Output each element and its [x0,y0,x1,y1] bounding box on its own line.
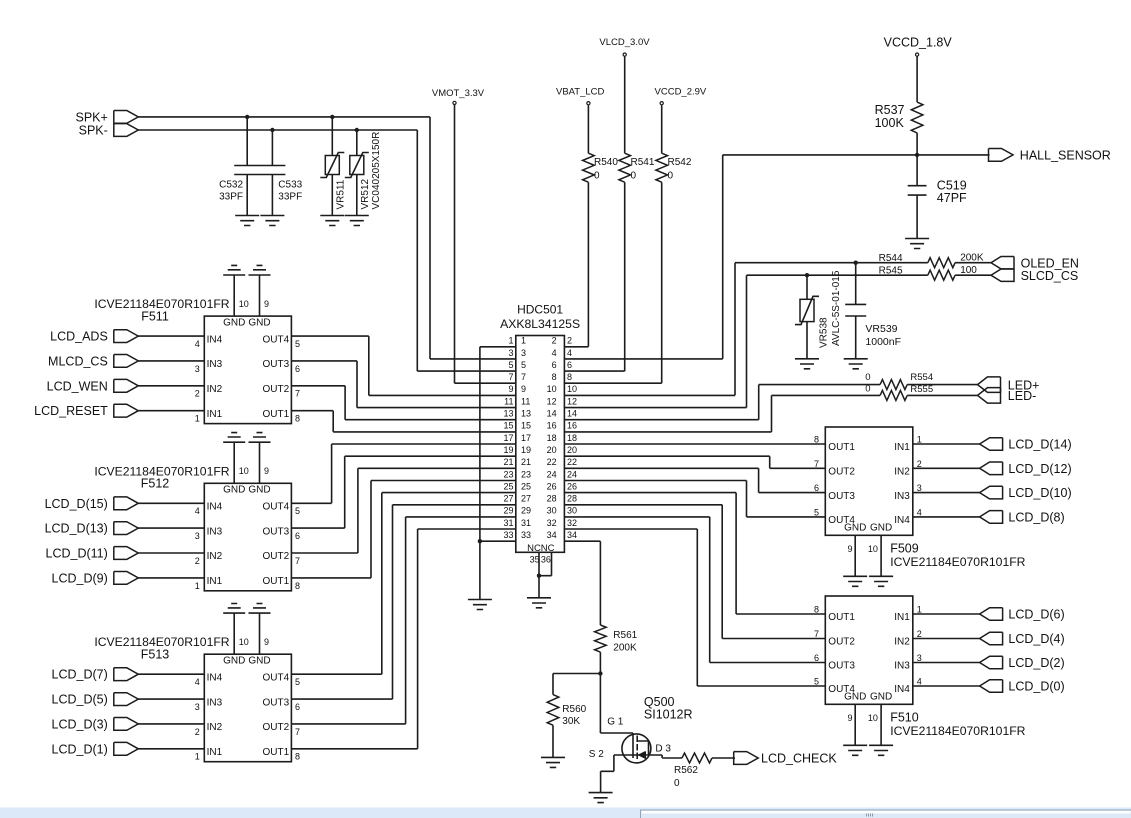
svg-text:OUT3: OUT3 [263,359,290,370]
svg-text:9: 9 [847,713,852,723]
svg-text:0: 0 [594,171,600,182]
svg-text:OUT2: OUT2 [828,467,855,478]
svg-text:NC: NC [527,543,541,554]
svg-text:VR539: VR539 [865,323,897,335]
svg-text:34: 34 [567,530,577,540]
svg-text:ICVE21184E070R101FR: ICVE21184E070R101FR [890,724,1025,738]
svg-text:VCCD_1.8V: VCCD_1.8V [884,35,953,49]
svg-text:NC: NC [541,543,555,554]
svg-text:IN2: IN2 [207,551,223,562]
svg-text:9: 9 [264,466,269,476]
svg-text:C532: C532 [219,180,243,191]
svg-text:14: 14 [547,409,557,419]
svg-text:30K: 30K [562,716,580,727]
svg-text:10: 10 [239,637,249,647]
svg-text:2: 2 [552,336,557,346]
svg-text:28: 28 [547,494,557,504]
svg-text:IN1: IN1 [894,612,910,623]
svg-text:LCD_D(14): LCD_D(14) [1008,438,1071,452]
svg-text:10: 10 [547,384,557,394]
svg-text:30: 30 [567,506,577,516]
svg-text:0: 0 [668,171,674,182]
svg-text:OUT1: OUT1 [263,747,290,758]
svg-text:R544: R544 [879,253,903,264]
svg-text:LCD_WEN: LCD_WEN [47,379,108,393]
svg-text:IN2: IN2 [894,637,910,648]
svg-text:IN4: IN4 [894,515,910,526]
svg-text:23: 23 [503,469,513,479]
svg-text:IN3: IN3 [894,661,910,672]
svg-text:20: 20 [567,445,577,455]
svg-text:IN2: IN2 [207,384,223,395]
svg-text:19: 19 [503,445,513,455]
svg-text:MLCD_CS: MLCD_CS [48,354,108,368]
svg-text:OUT4: OUT4 [828,515,855,526]
svg-text:6: 6 [814,483,819,493]
svg-text:8: 8 [295,752,300,762]
svg-text:IN3: IN3 [894,491,910,502]
svg-text:6: 6 [567,360,572,370]
svg-text:21: 21 [521,457,531,467]
svg-text:7: 7 [295,556,300,566]
svg-text:30: 30 [547,506,557,516]
svg-text:1000nF: 1000nF [865,336,901,348]
svg-text:4: 4 [195,339,200,349]
svg-text:R560: R560 [562,704,586,715]
svg-text:7: 7 [295,389,300,399]
svg-text:7: 7 [814,459,819,469]
svg-text:5: 5 [814,677,819,687]
svg-text:GND: GND [223,317,245,328]
svg-text:LCD_D(3): LCD_D(3) [52,717,108,731]
svg-text:6: 6 [295,364,300,374]
svg-text:4: 4 [917,677,922,687]
svg-text:31: 31 [521,518,531,528]
svg-text:OUT2: OUT2 [263,722,290,733]
svg-text:D 3: D 3 [655,743,671,754]
svg-text:R540: R540 [594,157,618,168]
svg-text:R561: R561 [613,630,637,641]
svg-text:10: 10 [868,544,878,554]
svg-text:5: 5 [814,507,819,517]
svg-text:R542: R542 [668,157,692,168]
svg-text:29: 29 [521,506,531,516]
svg-text:LCD_D(6): LCD_D(6) [1008,608,1064,622]
svg-text:27: 27 [521,494,531,504]
svg-text:R545: R545 [879,266,903,277]
svg-text:22: 22 [567,457,577,467]
svg-text:2: 2 [917,629,922,639]
svg-text:1: 1 [917,435,922,445]
svg-text:4: 4 [917,507,922,517]
svg-text:R562: R562 [674,765,698,776]
svg-text:IN1: IN1 [894,442,910,453]
svg-text:OUT1: OUT1 [828,442,855,453]
svg-text:1: 1 [195,414,200,424]
svg-text:3: 3 [508,348,513,358]
svg-text:OUT4: OUT4 [263,502,290,513]
svg-text:3: 3 [917,483,922,493]
svg-text:HDC501: HDC501 [517,303,563,317]
svg-text:28: 28 [567,494,577,504]
svg-text:1: 1 [508,336,513,346]
svg-text:9: 9 [508,384,513,394]
svg-text:13: 13 [503,409,513,419]
svg-text:VC040205X150R: VC040205X150R [371,132,382,210]
svg-text:R541: R541 [631,157,655,168]
svg-text:35: 35 [530,555,540,565]
svg-text:2: 2 [195,389,200,399]
svg-text:200K: 200K [960,253,984,264]
svg-text:6: 6 [295,531,300,541]
svg-text:1: 1 [917,605,922,615]
svg-text:25: 25 [503,481,513,491]
svg-text:22: 22 [547,457,557,467]
svg-text:LCD_CHECK: LCD_CHECK [761,752,837,766]
svg-text:23: 23 [521,469,531,479]
svg-text:GND: GND [223,485,245,496]
svg-text:IN4: IN4 [207,672,223,683]
svg-text:6: 6 [814,653,819,663]
svg-text:GND: GND [248,485,270,496]
svg-text:F510: F510 [890,710,919,724]
svg-text:GND: GND [223,656,245,667]
svg-text:12: 12 [547,396,557,406]
svg-text:8: 8 [814,605,819,615]
svg-text:2: 2 [195,727,200,737]
svg-text:8: 8 [295,581,300,591]
svg-text:7: 7 [295,727,300,737]
svg-text:8: 8 [814,435,819,445]
svg-text:S 2: S 2 [589,749,604,760]
svg-text:26: 26 [547,481,557,491]
svg-text:SI1012R: SI1012R [644,707,693,721]
svg-text:15: 15 [521,421,531,431]
svg-text:VCCD_2.9V: VCCD_2.9V [655,86,707,97]
svg-text:VR538: VR538 [819,317,830,348]
svg-text:IN2: IN2 [894,467,910,478]
svg-text:19: 19 [521,445,531,455]
svg-text:11: 11 [504,396,513,406]
svg-text:32: 32 [567,518,577,528]
svg-text:10: 10 [239,299,249,309]
svg-text:36: 36 [541,555,551,565]
svg-text:8: 8 [552,372,557,382]
svg-text:ICVE21184E070R101FR: ICVE21184E070R101FR [890,555,1025,569]
svg-text:IN4: IN4 [207,334,223,345]
svg-text:R537: R537 [875,103,905,117]
svg-text:IN4: IN4 [894,684,910,695]
svg-text:AVLC-5S-01-015: AVLC-5S-01-015 [831,270,842,346]
svg-text:12: 12 [567,396,577,406]
svg-text:8: 8 [295,414,300,424]
svg-text:10: 10 [868,713,878,723]
svg-text:9: 9 [521,384,526,394]
svg-text:5: 5 [295,506,300,516]
svg-text:3: 3 [195,702,200,712]
svg-text:SPK+: SPK+ [75,110,107,124]
svg-text:OUT4: OUT4 [263,334,290,345]
svg-text:SLCD_CS: SLCD_CS [1021,269,1079,283]
svg-text:OUT3: OUT3 [263,526,290,537]
svg-text:3: 3 [917,653,922,663]
svg-text:34: 34 [547,530,557,540]
svg-text:3: 3 [521,348,526,358]
svg-text:IN4: IN4 [207,502,223,513]
svg-text:24: 24 [547,469,557,479]
svg-text:VR511: VR511 [336,179,347,209]
svg-text:5: 5 [508,360,513,370]
svg-text:VLCD_3.0V: VLCD_3.0V [599,37,650,48]
svg-text:F511: F511 [141,309,169,323]
svg-text:10: 10 [239,466,249,476]
svg-text:LED-: LED- [1008,389,1036,403]
svg-text:1: 1 [195,752,200,762]
svg-text:9: 9 [264,637,269,647]
svg-text:9: 9 [847,544,852,554]
svg-text:18: 18 [547,433,557,443]
svg-text:33PF: 33PF [278,192,302,203]
svg-text:VBAT_LCD: VBAT_LCD [556,86,605,97]
svg-text:0: 0 [865,383,870,394]
svg-text:31: 31 [503,518,513,528]
svg-text:HALL_SENSOR: HALL_SENSOR [1020,149,1111,163]
svg-text:LCD_D(13): LCD_D(13) [45,522,108,536]
svg-text:4: 4 [567,348,572,358]
svg-text:OUT2: OUT2 [263,551,290,562]
svg-text:10: 10 [567,384,577,394]
svg-text:32: 32 [547,518,557,528]
svg-text:GND: GND [248,656,270,667]
svg-text:OUT1: OUT1 [263,576,290,587]
svg-text:1: 1 [521,336,526,346]
svg-text:8: 8 [567,372,572,382]
svg-text:IN1: IN1 [207,409,223,420]
svg-text:AXK8L34125S: AXK8L34125S [500,317,580,331]
svg-text:27: 27 [503,494,513,504]
svg-text:2: 2 [917,459,922,469]
svg-text:R554: R554 [910,372,933,383]
svg-text:3: 3 [195,531,200,541]
svg-text:4: 4 [195,677,200,687]
svg-text:4: 4 [195,506,200,516]
svg-text:G 1: G 1 [607,717,624,728]
svg-text:SPK-: SPK- [79,124,108,138]
svg-text:6: 6 [552,360,557,370]
svg-text:14: 14 [567,409,577,419]
svg-text:OUT1: OUT1 [828,612,855,623]
svg-text:100K: 100K [875,116,905,130]
svg-text:17: 17 [521,433,531,443]
svg-text:9: 9 [264,299,269,309]
svg-text:LCD_D(15): LCD_D(15) [45,497,108,511]
svg-text:5: 5 [521,360,526,370]
svg-text:IN1: IN1 [207,576,223,587]
svg-text:OUT3: OUT3 [828,661,855,672]
svg-text:C533: C533 [278,180,302,191]
svg-text:GND: GND [870,522,892,533]
svg-text:7: 7 [508,372,513,382]
svg-text:VMOT_3.3V: VMOT_3.3V [432,88,485,99]
svg-text:LCD_D(8): LCD_D(8) [1008,510,1064,524]
svg-text:OUT4: OUT4 [828,684,855,695]
svg-text:5: 5 [295,339,300,349]
svg-text:7: 7 [814,629,819,639]
svg-text:13: 13 [521,409,531,419]
svg-text:15: 15 [503,421,513,431]
svg-text:LCD_D(0): LCD_D(0) [1008,680,1064,694]
svg-text:IN2: IN2 [207,722,223,733]
svg-text:LCD_D(1): LCD_D(1) [52,742,108,756]
svg-text:47PF: 47PF [937,191,967,205]
svg-text:21: 21 [503,457,513,467]
svg-text:LCD_D(7): LCD_D(7) [52,668,108,682]
svg-text:2: 2 [567,336,572,346]
svg-text:IN3: IN3 [207,697,223,708]
svg-text:18: 18 [567,433,577,443]
svg-text:LCD_D(10): LCD_D(10) [1008,486,1071,500]
svg-text:20: 20 [547,445,557,455]
svg-text:OUT2: OUT2 [828,637,855,648]
svg-text:LCD_D(12): LCD_D(12) [1008,462,1071,476]
svg-text:1: 1 [195,581,200,591]
svg-text:29: 29 [503,506,513,516]
svg-text:F513: F513 [141,648,170,662]
svg-text:33PF: 33PF [219,192,243,203]
svg-text:2: 2 [195,556,200,566]
svg-text:33: 33 [503,530,513,540]
svg-text:24: 24 [567,469,577,479]
svg-text:LCD_D(4): LCD_D(4) [1008,632,1064,646]
svg-text:17: 17 [503,433,513,443]
svg-text:R555: R555 [910,384,933,395]
svg-text:OUT3: OUT3 [263,697,290,708]
svg-text:25: 25 [521,481,531,491]
svg-text:OUT4: OUT4 [263,672,290,683]
svg-text:GND: GND [870,691,892,702]
svg-text:3: 3 [195,364,200,374]
svg-text:LCD_RESET: LCD_RESET [34,404,108,418]
svg-text:LCD_D(2): LCD_D(2) [1008,656,1064,670]
svg-text:33: 33 [521,530,531,540]
svg-text:4: 4 [552,348,557,358]
svg-text:F512: F512 [141,477,170,491]
svg-text:GND: GND [248,317,270,328]
svg-text:0: 0 [865,372,870,383]
svg-text:IN3: IN3 [207,526,223,537]
svg-text:IN1: IN1 [207,747,223,758]
svg-text:16: 16 [567,421,577,431]
svg-text:6: 6 [295,702,300,712]
svg-text:LCD_D(5): LCD_D(5) [52,693,108,707]
svg-text:LCD_ADS: LCD_ADS [50,330,108,344]
svg-text:100: 100 [960,265,977,276]
svg-text:11: 11 [521,396,530,406]
svg-text:0: 0 [631,171,637,182]
svg-text:26: 26 [567,481,577,491]
svg-text:VR512: VR512 [360,178,371,209]
svg-text:OUT1: OUT1 [263,409,290,420]
svg-text:OUT3: OUT3 [828,491,855,502]
svg-text:LCD_D(9): LCD_D(9) [52,571,108,585]
svg-text:LCD_D(11): LCD_D(11) [46,547,108,561]
svg-text:16: 16 [547,421,557,431]
svg-text:F509: F509 [890,541,919,555]
svg-text:200K: 200K [613,643,637,654]
svg-text:IN3: IN3 [207,359,223,370]
svg-text:5: 5 [295,677,300,687]
svg-text:7: 7 [521,372,526,382]
svg-text:OUT2: OUT2 [263,384,290,395]
svg-text:0: 0 [674,778,680,789]
